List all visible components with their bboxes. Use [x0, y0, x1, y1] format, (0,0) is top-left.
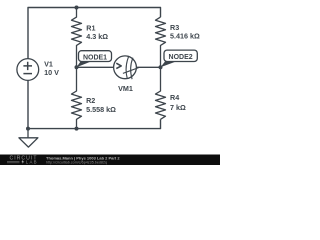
wire from V1 bottom to ground junction	[27, 80, 29, 128]
junction dot on bottom rail at ground	[26, 127, 30, 131]
resistor R3	[156, 17, 166, 67]
svg-text:10 V: 10 V	[44, 68, 59, 77]
footer CircuitLab logo	[7, 156, 38, 165]
svg-text:5.416 kΩ: 5.416 kΩ	[170, 32, 200, 41]
svg-text:R1: R1	[86, 24, 95, 33]
svg-text:7 kΩ: 7 kΩ	[170, 103, 186, 112]
resistor R1	[72, 8, 82, 68]
svg-text:VM1: VM1	[118, 84, 133, 93]
voltage source V1	[17, 59, 39, 81]
footer bar	[0, 155, 220, 166]
svg-text:Thomas.Mann | Phys 1003 Lab 2: Thomas.Mann | Phys 1003 Lab 2 Part 2	[46, 155, 120, 160]
wire from NODE1 junction to VM1 left terminal	[77, 66, 114, 68]
svg-text:http://circuitlab.com/c/6p4z35: http://circuitlab.com/c/6p4z35.bed82q	[46, 161, 107, 165]
junction dot on bottom rail at R2	[75, 127, 79, 131]
svg-text:NODE1: NODE1	[83, 54, 107, 61]
svg-text:R4: R4	[170, 93, 179, 102]
svg-text:R2: R2	[86, 96, 95, 105]
junction dot on top rail at R1	[75, 6, 79, 10]
svg-text:R3: R3	[170, 23, 179, 32]
svg-text:LAB: LAB	[26, 160, 38, 165]
svg-text:NODE2: NODE2	[169, 54, 193, 61]
node NODE2 flag	[161, 50, 198, 67]
node NODE1 flag	[77, 51, 112, 68]
resistor R2	[72, 67, 82, 128]
wire top rail from V1 up left side, across top, down to R3	[28, 8, 161, 60]
resistor R4	[156, 67, 166, 119]
ground	[19, 129, 38, 148]
voltmeter VM1	[114, 56, 139, 79]
svg-text:4.3 kΩ: 4.3 kΩ	[86, 32, 108, 41]
node NODE1 junction dot	[75, 65, 79, 69]
node NODE2 junction dot	[159, 65, 163, 69]
wire from VM1 right terminal to NODE2 junction	[136, 66, 160, 68]
svg-text:5.558 kΩ: 5.558 kΩ	[86, 105, 116, 114]
wire bottom rail from ground junction to R4 bottom	[28, 119, 161, 128]
